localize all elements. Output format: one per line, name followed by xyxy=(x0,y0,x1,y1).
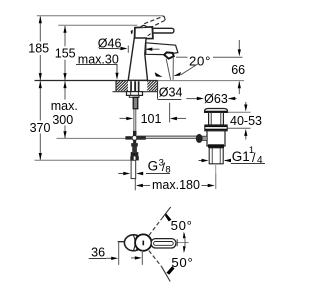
svg-text:Ø34: Ø34 xyxy=(159,86,183,100)
svg-text:G: G xyxy=(148,159,159,174)
svg-text:/: / xyxy=(252,151,256,165)
svg-text:36: 36 xyxy=(91,246,105,260)
svg-text:40-53: 40-53 xyxy=(230,114,262,128)
svg-text:185: 185 xyxy=(28,41,49,55)
svg-text:Ø63: Ø63 xyxy=(204,92,228,106)
svg-text:50°: 50° xyxy=(171,255,193,270)
svg-text:max.: max. xyxy=(51,99,78,113)
svg-text:155: 155 xyxy=(55,47,76,61)
svg-text:101: 101 xyxy=(141,112,162,126)
svg-text:370: 370 xyxy=(30,121,51,135)
svg-text:G1: G1 xyxy=(232,149,250,164)
svg-text:300: 300 xyxy=(52,113,73,127)
svg-text:4: 4 xyxy=(257,155,263,166)
svg-text:max.180: max.180 xyxy=(152,178,200,192)
svg-text:50°: 50° xyxy=(171,218,193,233)
svg-text:20°: 20° xyxy=(189,53,211,68)
svg-text:66: 66 xyxy=(231,63,245,77)
